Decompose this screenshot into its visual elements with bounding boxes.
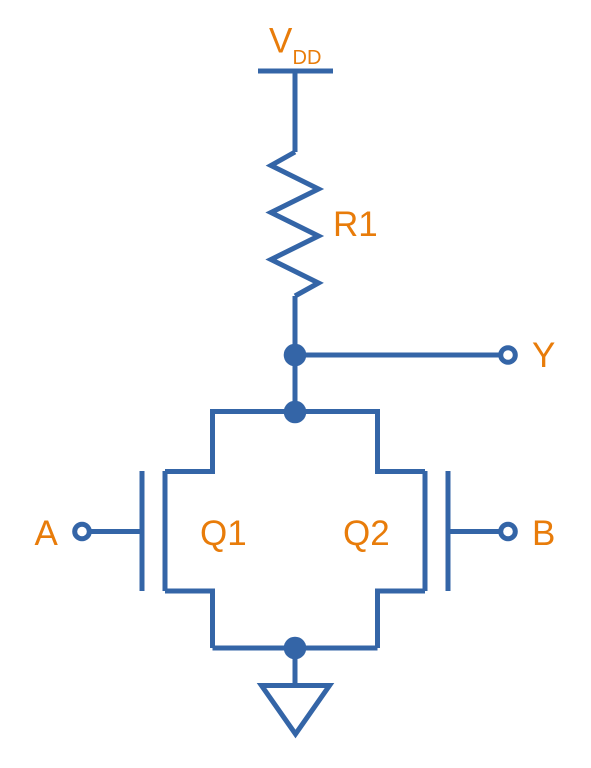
terminal A (75, 524, 90, 539)
wire node Y to output terminal (295, 353, 500, 358)
svg-text:Y: Y (532, 336, 555, 375)
node Y junction (284, 344, 307, 367)
svg-text:Q1: Q1 (200, 514, 247, 553)
node drain junction (284, 401, 307, 424)
wire source Q1 to ground bus (165, 591, 213, 648)
svg-text:VDD: VDD (269, 22, 321, 70)
terminal Y (501, 348, 516, 363)
wire drain bus right to Q2 (295, 412, 425, 472)
wire gate Q2 to input B (448, 529, 500, 534)
node source junction (284, 637, 307, 660)
wire gate Q1 to input A (90, 529, 142, 534)
transistor Q1 gate bar (140, 471, 145, 591)
transistor Q2 channel bar (423, 471, 428, 591)
wire VDD to resistor top (293, 71, 298, 152)
svg-text:A: A (35, 514, 59, 553)
svg-text:Q2: Q2 (343, 514, 390, 553)
svg-text:R1: R1 (333, 205, 378, 244)
transistor Q1 channel bar (163, 471, 168, 591)
wire ground bus (213, 646, 378, 651)
ground (262, 686, 330, 735)
svg-text:B: B (532, 514, 555, 553)
wire node to ground symbol (293, 648, 298, 687)
wire drain bus left to Q1 (165, 412, 295, 472)
terminal B (501, 524, 516, 539)
wire source Q2 to ground bus (378, 591, 426, 648)
transistor Q2 gate bar (446, 471, 451, 591)
power rail VDD bar (258, 69, 333, 74)
wire resistor bottom to drain node (293, 296, 298, 412)
resistor R1 (271, 152, 319, 296)
